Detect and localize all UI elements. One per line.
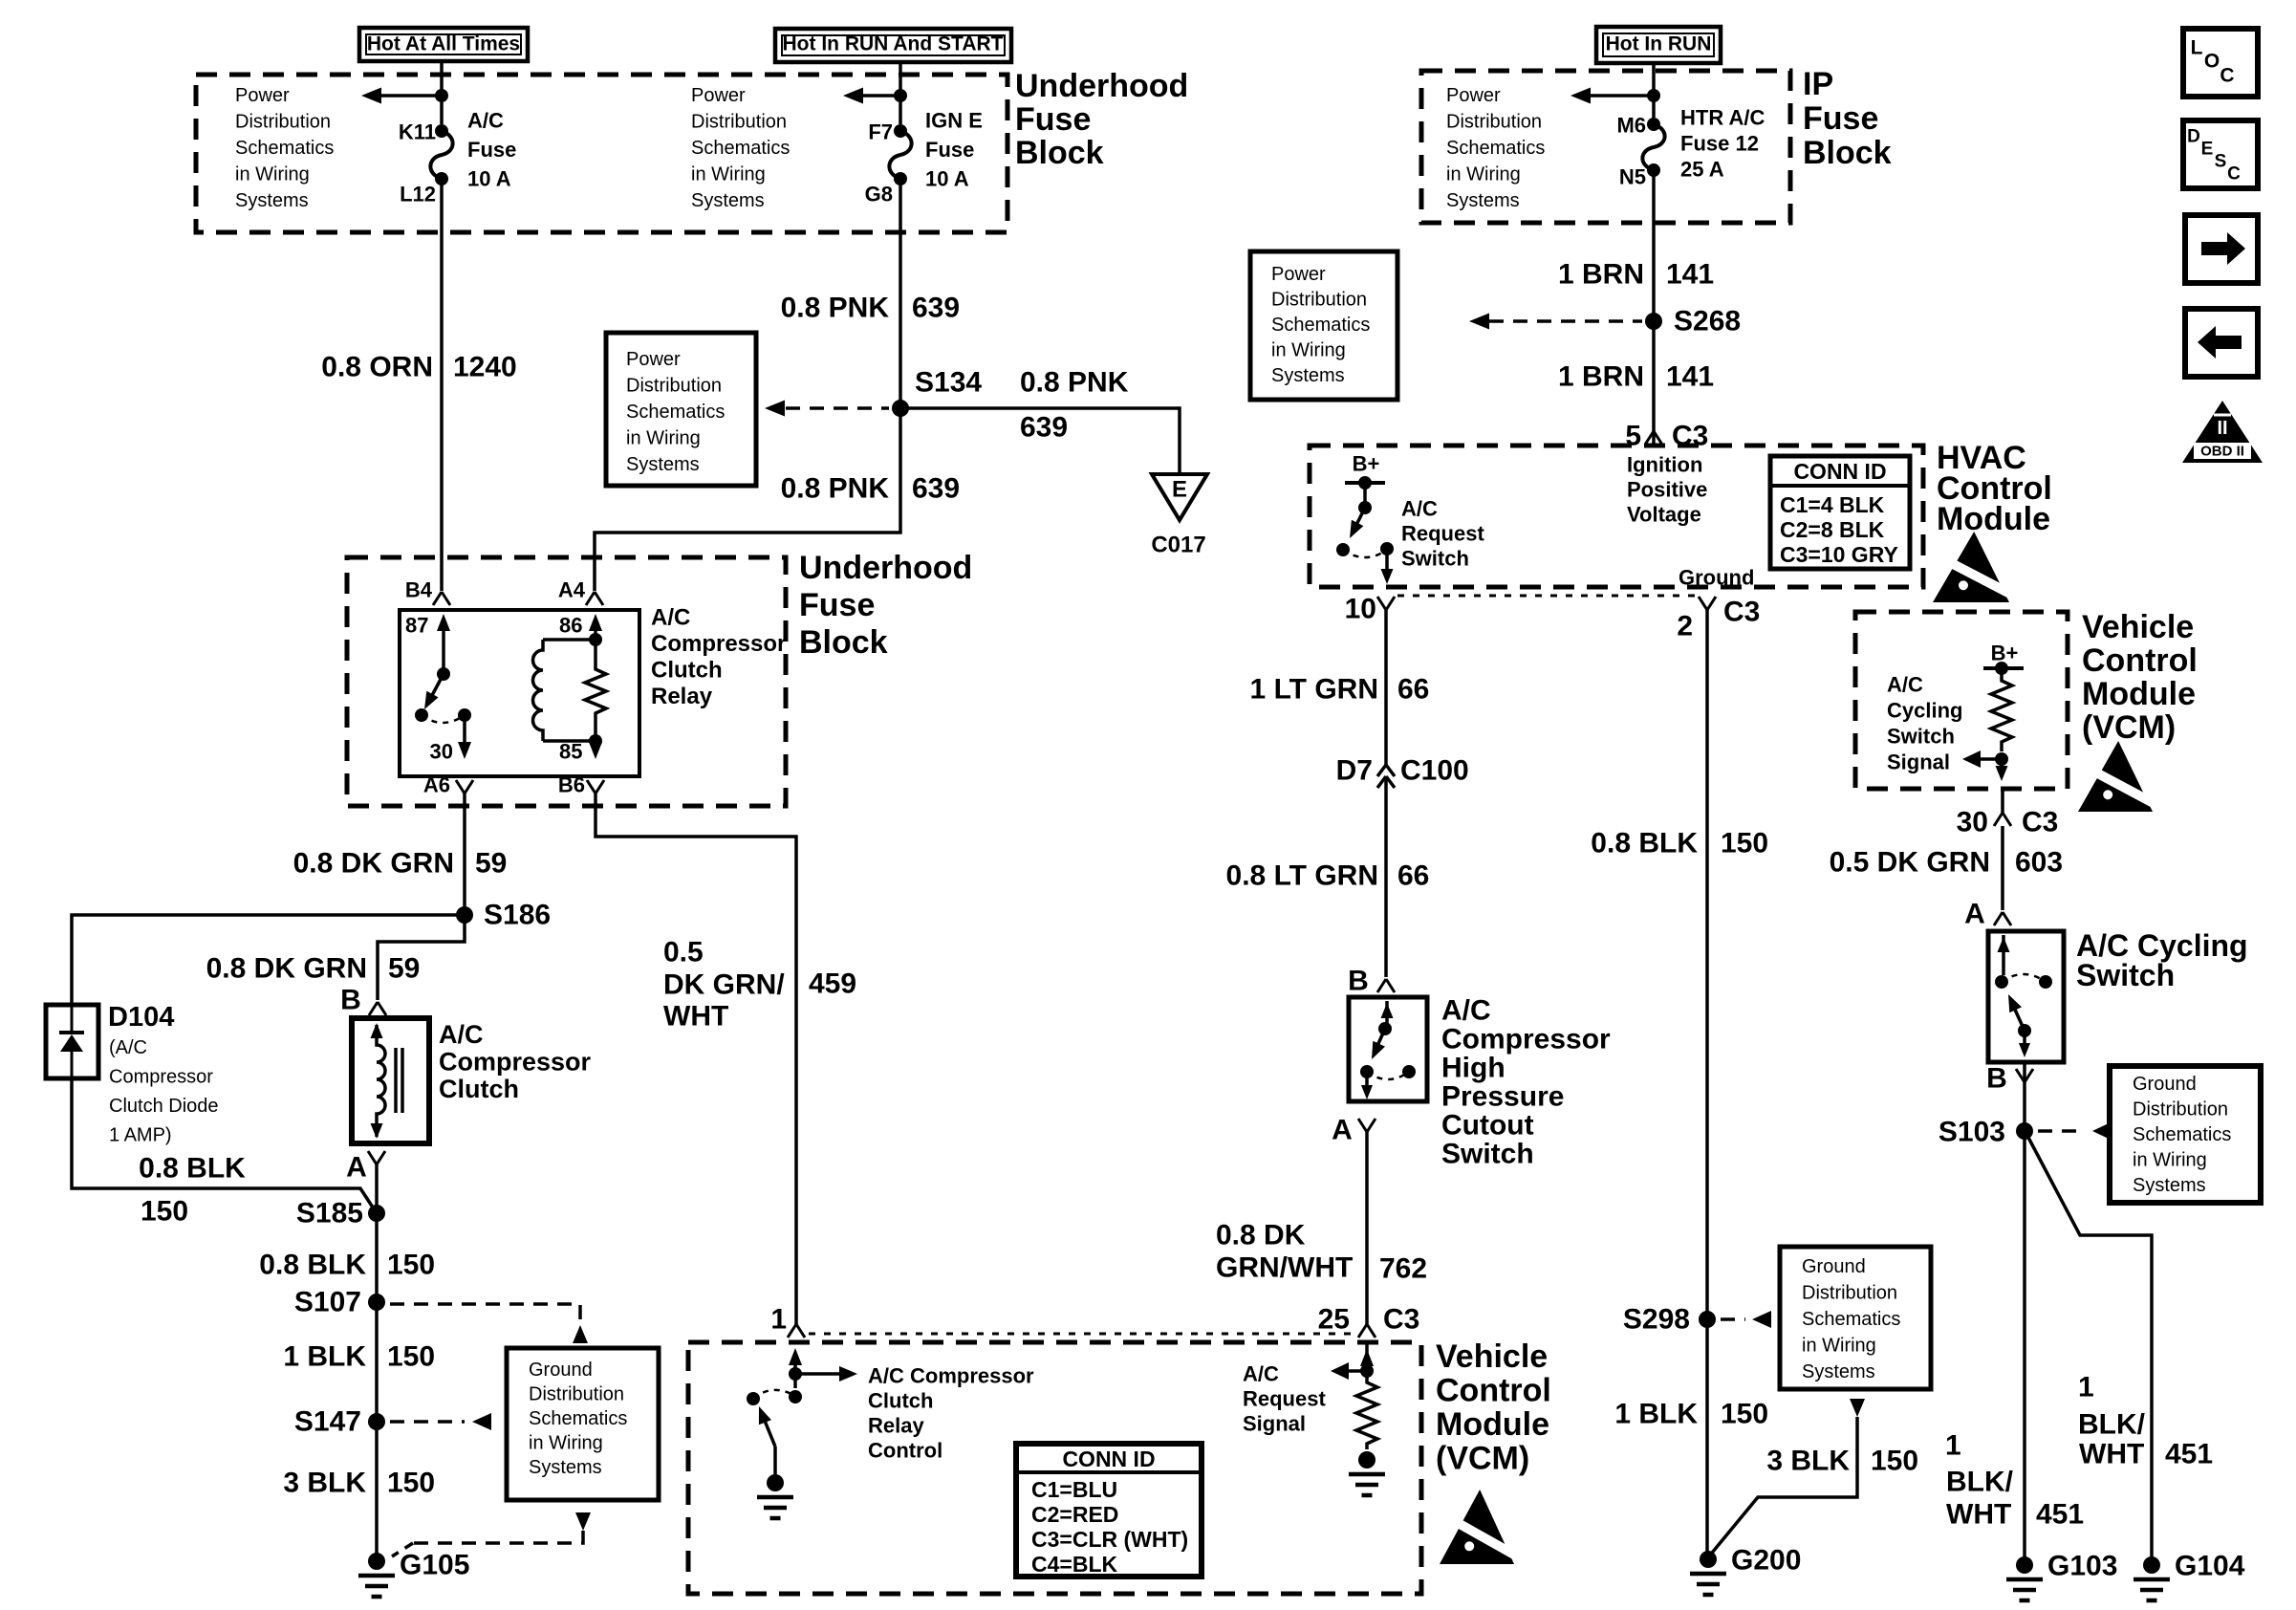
box: Power Distribution Schematics in Wiring Systems xyxy=(1250,251,1397,400)
svg-text:0.8 LT GRN: 0.8 LT GRN xyxy=(1226,860,1378,892)
svg-text:C1=BLU: C1=BLU xyxy=(1031,1477,1117,1502)
relay resistor xyxy=(589,633,602,646)
wire: 0.8 PNK 639 from G8 down to S134 and relay A4 xyxy=(595,179,900,591)
svg-text:Power: Power xyxy=(691,85,746,106)
svg-text:GRN/WHT: GRN/WHT xyxy=(1216,1252,1353,1284)
label box: Hot At All Times xyxy=(359,28,528,61)
svg-text:Schematics: Schematics xyxy=(1446,138,1545,159)
A/C cycling switch box xyxy=(1988,931,2064,1062)
vehicle control module (VCM) dashed box right xyxy=(1855,612,2068,789)
svg-text:1: 1 xyxy=(1945,1430,1961,1462)
svg-text:C2=RED: C2=RED xyxy=(1031,1502,1118,1527)
relay switch armature xyxy=(437,667,450,681)
svg-text:0.8 DK GRN: 0.8 DK GRN xyxy=(206,953,367,985)
fine connector line under HVAC xyxy=(1397,595,1696,598)
svg-text:Signal: Signal xyxy=(1243,1412,1306,1436)
svg-text:in Wiring: in Wiring xyxy=(1802,1336,1876,1357)
svg-text:C100: C100 xyxy=(1400,755,1469,787)
label box: Hot In RUN xyxy=(1596,27,1721,63)
svg-text:G105: G105 xyxy=(400,1550,469,1581)
svg-text:Module: Module xyxy=(2082,676,2196,712)
arrow: cycling switch signal tap xyxy=(1981,757,2002,761)
ESD symbol xyxy=(2078,741,2161,812)
ground symbol at resistor xyxy=(1358,1451,1375,1469)
svg-text:Vehicle: Vehicle xyxy=(1436,1338,1548,1375)
svg-text:A: A xyxy=(346,1152,367,1184)
wire: feed arrow to power distribution xyxy=(381,94,442,98)
svg-text:25: 25 xyxy=(1318,1304,1350,1336)
vehicle control module dashed box xyxy=(688,1342,1421,1594)
svg-text:(VCM): (VCM) xyxy=(2082,709,2176,746)
ground symbol inside VCM xyxy=(767,1474,784,1491)
svg-text:C2=8 BLK: C2=8 BLK xyxy=(1780,517,1885,542)
clutch coil symbol xyxy=(377,1025,385,1137)
box: Ground Distribution Schematics in Wiring Systems xyxy=(507,1348,659,1500)
svg-text:G200: G200 xyxy=(1731,1545,1801,1577)
svg-text:Power: Power xyxy=(1446,85,1501,106)
label box: Hot In RUN And START xyxy=(775,29,1011,62)
svg-text:87: 87 xyxy=(405,614,428,638)
pin 30 arrow xyxy=(463,715,466,749)
svg-text:S107: S107 xyxy=(294,1287,361,1318)
svg-text:0.8 ORN: 0.8 ORN xyxy=(321,352,433,383)
svg-text:G104: G104 xyxy=(2175,1551,2245,1582)
svg-text:Fuse 12: Fuse 12 xyxy=(1680,132,1759,156)
svg-text:C1=4 BLK: C1=4 BLK xyxy=(1780,492,1885,517)
svg-text:639: 639 xyxy=(912,293,960,324)
svg-text:Fuse: Fuse xyxy=(925,138,974,162)
icon: DESC xyxy=(2183,120,2258,188)
svg-text:BLK/: BLK/ xyxy=(2078,1409,2146,1441)
svg-text:150: 150 xyxy=(1871,1446,1918,1477)
A/C request signal input xyxy=(1365,1342,1369,1365)
diode D104 box xyxy=(46,1005,98,1078)
svg-text:S147: S147 xyxy=(294,1406,361,1438)
svg-text:Ground: Ground xyxy=(1679,566,1754,590)
wire: 3 BLK 150 from ground distribution to G200 xyxy=(1850,1399,1865,1417)
wire: 0.8 DK GRN/WHT 762 to VCM pin 25 xyxy=(1365,1132,1369,1324)
svg-text:Compressor: Compressor xyxy=(109,1067,213,1088)
svg-text:Systems: Systems xyxy=(1802,1361,1875,1382)
svg-text:Distribution: Distribution xyxy=(1446,112,1542,133)
ESD symbol xyxy=(1933,532,2019,602)
svg-text:B6: B6 xyxy=(558,773,585,797)
svg-text:Pressure: Pressure xyxy=(1441,1081,1564,1113)
svg-text:Hot In RUN: Hot In RUN xyxy=(1606,33,1712,55)
svg-text:0.8 PNK: 0.8 PNK xyxy=(781,473,890,505)
svg-text:O: O xyxy=(2204,51,2220,73)
svg-text:66: 66 xyxy=(1397,860,1429,892)
svg-text:Distribution: Distribution xyxy=(2133,1099,2228,1120)
svg-text:Schematics: Schematics xyxy=(529,1408,627,1429)
svg-text:150: 150 xyxy=(387,1468,435,1499)
wire: 0.8 LT GRN 66 to switch B xyxy=(1384,776,1388,977)
svg-text:0.8 DK: 0.8 DK xyxy=(1216,1220,1306,1251)
svg-text:E: E xyxy=(1172,477,1187,503)
dashed wire: S298 to ground distribution xyxy=(1721,1317,1745,1321)
svg-text:Request: Request xyxy=(1401,522,1484,546)
ground G103 xyxy=(2016,1556,2033,1574)
wire: 1 BLK/WHT 451 branch to G104 xyxy=(2026,1134,2152,1561)
svg-text:Fuse: Fuse xyxy=(467,138,516,162)
wire: 1 BLK 150 from S298 to G200 xyxy=(1705,1319,1709,1559)
svg-text:B: B xyxy=(1348,966,1369,997)
svg-text:Cycling: Cycling xyxy=(1887,699,1962,723)
dashed wire: S134 to power distribution box xyxy=(786,406,889,410)
svg-text:Systems: Systems xyxy=(1446,190,1520,211)
svg-text:86: 86 xyxy=(559,614,582,638)
svg-text:Ignition: Ignition xyxy=(1627,453,1702,477)
fuse: IGN E Fuse 10 A (F7-G8) xyxy=(894,124,907,138)
svg-text:Systems: Systems xyxy=(1271,365,1345,386)
svg-text:25 A: 25 A xyxy=(1680,158,1724,182)
svg-text:C3: C3 xyxy=(1383,1304,1419,1336)
svg-text:1240: 1240 xyxy=(453,352,517,383)
svg-text:A/C: A/C xyxy=(1441,995,1491,1027)
node: junction on fuse feed xyxy=(1647,89,1660,102)
svg-text:Relay: Relay xyxy=(651,684,713,709)
node S186 xyxy=(456,906,473,924)
node S185 xyxy=(368,1205,385,1222)
svg-text:1 BLK: 1 BLK xyxy=(283,1341,366,1373)
svg-text:Systems: Systems xyxy=(2133,1175,2206,1196)
svg-text:Block: Block xyxy=(1803,135,1892,171)
svg-text:Switch: Switch xyxy=(1401,547,1469,571)
svg-text:Cutout: Cutout xyxy=(1441,1110,1534,1142)
svg-text:in Wiring: in Wiring xyxy=(2133,1150,2207,1171)
ground G105 xyxy=(368,1553,385,1570)
icon: forward arrow xyxy=(2185,215,2258,283)
svg-text:3 BLK: 3 BLK xyxy=(1766,1446,1850,1477)
svg-text:WHT: WHT xyxy=(1946,1499,2011,1531)
dashed wire: ground distribution to G105 xyxy=(575,1512,591,1531)
svg-text:A6: A6 xyxy=(423,773,450,797)
svg-text:Underhood: Underhood xyxy=(1015,68,1188,104)
svg-text:Clutch: Clutch xyxy=(439,1075,519,1103)
relay A/C Compressor Clutch Relay box xyxy=(400,610,639,776)
svg-text:C4=BLK: C4=BLK xyxy=(1031,1552,1117,1577)
svg-text:M6: M6 xyxy=(1616,114,1646,138)
svg-text:A: A xyxy=(1964,899,1985,930)
svg-text:Clutch: Clutch xyxy=(651,658,723,684)
svg-text:A: A xyxy=(1332,1115,1353,1146)
svg-text:OBD II: OBD II xyxy=(2200,444,2244,460)
wire: cycling switch B to S103 xyxy=(2023,1062,2026,1131)
svg-text:Compressor: Compressor xyxy=(1441,1024,1611,1055)
svg-text:Fuse: Fuse xyxy=(1803,100,1878,137)
wire: 0.8 ORN 1240 from L12 to relay B4 xyxy=(440,179,444,591)
svg-text:Systems: Systems xyxy=(691,190,765,211)
svg-text:D: D xyxy=(2187,127,2200,147)
svg-text:0.5: 0.5 xyxy=(663,937,704,968)
svg-text:Request: Request xyxy=(1243,1387,1326,1411)
svg-text:Schematics: Schematics xyxy=(1271,315,1370,336)
svg-text:S103: S103 xyxy=(1939,1117,2005,1148)
svg-text:Fuse: Fuse xyxy=(799,587,875,623)
svg-text:30: 30 xyxy=(430,740,453,764)
dashed wire: S147 arrow xyxy=(390,1420,465,1424)
A/C Compressor Clutch box xyxy=(352,1018,429,1143)
svg-text:141: 141 xyxy=(1666,361,1714,393)
svg-text:10 A: 10 A xyxy=(467,167,511,191)
svg-text:Compressor: Compressor xyxy=(439,1048,592,1077)
svg-text:150: 150 xyxy=(387,1250,435,1281)
svg-text:S268: S268 xyxy=(1674,306,1741,337)
svg-text:1 BRN: 1 BRN xyxy=(1558,259,1644,291)
fuse: HTR A/C Fuse 12 25 A (M6-N5) xyxy=(1647,118,1660,131)
svg-text:Voltage: Voltage xyxy=(1627,503,1701,527)
wire: feed arrow xyxy=(1591,94,1654,98)
icon: LOC xyxy=(2183,29,2258,97)
svg-text:A/C: A/C xyxy=(439,1020,484,1049)
wire: 1 BLK 150 to S147 xyxy=(375,1302,379,1422)
svg-text:K11: K11 xyxy=(399,120,436,144)
svg-text:85: 85 xyxy=(559,740,582,764)
svg-text:G8: G8 xyxy=(865,183,893,207)
svg-text:639: 639 xyxy=(1020,412,1068,444)
svg-text:0.8 BLK: 0.8 BLK xyxy=(259,1250,366,1281)
wire: battery feed into fuse K11 xyxy=(440,61,444,124)
svg-text:S: S xyxy=(2215,152,2227,172)
svg-text:D104: D104 xyxy=(108,1002,174,1033)
svg-text:1 BRN: 1 BRN xyxy=(1558,361,1644,393)
node: junction on A/C fuse feed xyxy=(435,89,448,102)
driver: A/C compressor clutch relay control switch xyxy=(793,1357,797,1388)
IP fuse block dashed box xyxy=(1421,71,1790,223)
svg-text:N5: N5 xyxy=(1619,165,1646,189)
svg-text:A/C: A/C xyxy=(1887,673,1923,697)
svg-text:IGN E: IGN E xyxy=(925,109,983,133)
svg-text:59: 59 xyxy=(388,953,420,985)
svg-text:C017: C017 xyxy=(1151,533,1205,558)
svg-text:A/C Compressor: A/C Compressor xyxy=(868,1364,1034,1388)
svg-text:C: C xyxy=(2227,164,2241,185)
relay coil xyxy=(543,638,596,642)
svg-text:Relay: Relay xyxy=(868,1414,924,1438)
CONN ID table HVAC xyxy=(1770,456,1910,569)
svg-text:B: B xyxy=(340,985,361,1016)
svg-text:C3=10 GRY: C3=10 GRY xyxy=(1780,542,1898,567)
svg-text:Control: Control xyxy=(2082,642,2198,679)
svg-text:1 AMP): 1 AMP) xyxy=(109,1125,172,1146)
connector C100 pin D7 xyxy=(1377,765,1395,788)
svg-text:0.8 DK GRN: 0.8 DK GRN xyxy=(293,848,454,880)
wire: 0.5 DK GRN 603 to cycling switch xyxy=(2001,789,2004,813)
svg-text:Positive: Positive xyxy=(1627,478,1707,502)
svg-text:S298: S298 xyxy=(1623,1304,1690,1336)
svg-text:Module: Module xyxy=(1436,1406,1549,1443)
svg-text:0.8 PNK: 0.8 PNK xyxy=(781,293,890,324)
wire: 0.8 BLK 150 from D104 to S185 xyxy=(72,1078,377,1213)
svg-text:459: 459 xyxy=(809,968,856,1000)
svg-text:141: 141 xyxy=(1666,259,1714,291)
svg-text:0.8 BLK: 0.8 BLK xyxy=(1591,828,1698,859)
wire: clutch A to S185 xyxy=(375,1164,379,1213)
dashed wire: S107 to ground distribution xyxy=(390,1304,580,1322)
svg-text:(A/C: (A/C xyxy=(109,1037,147,1058)
svg-text:Ground: Ground xyxy=(529,1360,593,1381)
ESD symbol xyxy=(1440,1490,1523,1564)
svg-text:Distribution: Distribution xyxy=(691,112,787,133)
svg-text:in Wiring: in Wiring xyxy=(529,1433,603,1454)
dashed wire: S103 to ground distribution xyxy=(2038,1129,2086,1133)
wire: 0.5 DK GRN/WHT 459 from B6 to VCM xyxy=(596,794,796,1324)
svg-text:Control: Control xyxy=(868,1439,942,1463)
svg-text:0.8 PNK: 0.8 PNK xyxy=(1020,367,1129,399)
svg-text:Switch: Switch xyxy=(1887,725,1955,749)
svg-text:A/C: A/C xyxy=(1243,1362,1279,1386)
svg-text:WHT: WHT xyxy=(663,1001,728,1033)
svg-text:1 LT GRN: 1 LT GRN xyxy=(1250,674,1378,706)
svg-text:Control: Control xyxy=(1436,1373,1551,1409)
svg-text:E: E xyxy=(2201,140,2214,160)
svg-text:S185: S185 xyxy=(296,1198,363,1229)
svg-text:Distribution: Distribution xyxy=(235,112,331,133)
svg-text:Schematics: Schematics xyxy=(235,138,334,159)
svg-text:10 A: 10 A xyxy=(925,167,969,191)
svg-text:10: 10 xyxy=(1345,594,1376,625)
ground G200 xyxy=(1700,1551,1717,1568)
node S298 xyxy=(1699,1311,1716,1328)
node S107 xyxy=(368,1294,385,1311)
wire: 0.8 BLK 150 to S107 xyxy=(375,1213,379,1302)
icon: back arrow xyxy=(2185,309,2258,377)
svg-text:in Wiring: in Wiring xyxy=(626,428,701,449)
svg-text:A4: A4 xyxy=(558,578,586,602)
svg-text:Switch: Switch xyxy=(2076,958,2175,992)
svg-text:150: 150 xyxy=(141,1196,188,1228)
fuse: A/C Fuse 10 A (K11-L12) xyxy=(435,124,448,138)
svg-text:DK GRN/: DK GRN/ xyxy=(663,969,785,1001)
svg-text:Systems: Systems xyxy=(235,190,309,211)
underhood fuse block (relay) dashed box xyxy=(347,557,786,806)
svg-text:Distribution: Distribution xyxy=(1271,290,1367,311)
svg-text:Clutch Diode: Clutch Diode xyxy=(109,1096,219,1117)
box: Power Distribution Schematics in Wiring Systems xyxy=(606,333,756,486)
svg-text:A/C: A/C xyxy=(467,109,504,133)
svg-text:Signal: Signal xyxy=(1887,751,1950,774)
wire: 0.8 PNK 639 from S134 to C017 xyxy=(900,408,1180,474)
dashed wire: S268 to power distribution xyxy=(1489,319,1642,323)
svg-text:Block: Block xyxy=(799,624,888,661)
wire: 1 BRN 141 from N5 to S268 xyxy=(1652,170,1656,446)
svg-text:762: 762 xyxy=(1379,1253,1427,1285)
svg-text:HTR A/C: HTR A/C xyxy=(1680,106,1765,130)
svg-text:1: 1 xyxy=(2078,1372,2094,1403)
svg-text:Underhood: Underhood xyxy=(799,550,972,586)
wire: 0.8 DK GRN 59 from S186 to clutch B xyxy=(378,915,465,1000)
svg-text:Systems: Systems xyxy=(529,1457,602,1478)
icon: OBD II triangle xyxy=(2182,401,2263,463)
svg-text:Vehicle: Vehicle xyxy=(2082,609,2194,645)
CONN ID table xyxy=(1016,1444,1202,1577)
wire: 3 BLK 150 to G105 xyxy=(375,1422,379,1561)
svg-text:451: 451 xyxy=(2036,1499,2084,1531)
svg-text:Schematics: Schematics xyxy=(691,138,790,159)
svg-text:C3=CLR (WHT): C3=CLR (WHT) xyxy=(1031,1527,1188,1552)
svg-text:B: B xyxy=(1986,1063,2007,1095)
svg-text:S134: S134 xyxy=(915,367,982,399)
svg-text:1 BLK: 1 BLK xyxy=(1614,1399,1698,1430)
HVAC control module dashed box xyxy=(1310,446,1923,587)
node: junction on IGN E fuse feed xyxy=(894,89,907,102)
svg-text:Ground: Ground xyxy=(2133,1074,2197,1095)
svg-text:Fuse: Fuse xyxy=(1015,101,1091,138)
pin 85 arrow xyxy=(594,741,597,749)
svg-text:B+: B+ xyxy=(1353,452,1380,476)
svg-text:Schematics: Schematics xyxy=(2133,1124,2231,1145)
A/C compressor high pressure cutout switch box xyxy=(1349,997,1427,1101)
wire: 0.8 BLK 150 from pin 2 to S298 xyxy=(1705,610,1709,1319)
underhood fuse block (top) dashed box xyxy=(196,75,1007,232)
svg-text:B+: B+ xyxy=(1991,642,2019,665)
svg-text:in Wiring: in Wiring xyxy=(691,164,766,185)
svg-text:in Wiring: in Wiring xyxy=(235,164,310,185)
svg-text:BLK/: BLK/ xyxy=(1946,1467,2014,1498)
svg-text:Power: Power xyxy=(235,85,290,106)
svg-text:A/C: A/C xyxy=(651,605,690,631)
wire: ignition feed into fuse F7 xyxy=(899,61,902,124)
svg-text:2: 2 xyxy=(1677,611,1693,642)
svg-text:C3: C3 xyxy=(1723,597,1760,628)
wire: S186 branch to diode D104 xyxy=(72,915,465,1005)
svg-text:L: L xyxy=(2191,37,2203,59)
svg-text:in Wiring: in Wiring xyxy=(1271,340,1346,361)
box: Ground Distribution Schematics in Wiring Systems xyxy=(2110,1066,2261,1203)
svg-text:0.8 BLK: 0.8 BLK xyxy=(139,1153,246,1185)
svg-text:F7: F7 xyxy=(868,120,893,144)
svg-text:Schematics: Schematics xyxy=(626,402,725,423)
svg-text:Compressor: Compressor xyxy=(651,631,786,657)
svg-text:639: 639 xyxy=(912,473,960,505)
svg-text:59: 59 xyxy=(475,848,507,880)
svg-text:C: C xyxy=(2220,65,2234,87)
node S103 xyxy=(2016,1122,2033,1140)
wire into fuse M6 xyxy=(1652,61,1656,118)
svg-text:Power: Power xyxy=(1271,264,1326,285)
diode symbol xyxy=(71,1005,74,1033)
svg-text:Clutch: Clutch xyxy=(868,1389,933,1413)
svg-text:Block: Block xyxy=(1015,135,1104,171)
svg-text:Switch: Switch xyxy=(1441,1139,1534,1170)
svg-text:G103: G103 xyxy=(2047,1551,2117,1582)
svg-text:Distribution: Distribution xyxy=(529,1384,624,1405)
A/C request switch armature xyxy=(1355,508,1365,527)
svg-text:A/C: A/C xyxy=(1401,497,1438,521)
svg-text:451: 451 xyxy=(2165,1439,2213,1470)
svg-text:Power: Power xyxy=(626,349,681,370)
svg-text:IP: IP xyxy=(1803,66,1833,102)
wire: 1 LT GRN 66 from pin 10 xyxy=(1384,610,1388,765)
wire: feed arrow to power distribution xyxy=(863,94,900,98)
svg-text:150: 150 xyxy=(1721,828,1768,859)
box: Ground Distribution Schematics in Wiring Systems xyxy=(1780,1247,1931,1389)
svg-text:S186: S186 xyxy=(484,900,551,931)
svg-text:0.5 DK GRN: 0.5 DK GRN xyxy=(1830,847,1990,879)
svg-text:(VCM): (VCM) xyxy=(1436,1441,1529,1477)
node S268 xyxy=(1645,313,1662,330)
svg-text:D7: D7 xyxy=(1336,755,1373,787)
svg-text:Distribution: Distribution xyxy=(626,376,722,397)
svg-text:30: 30 xyxy=(1957,807,1988,838)
svg-text:High: High xyxy=(1441,1053,1505,1084)
svg-text:WHT: WHT xyxy=(2079,1439,2144,1470)
svg-text:II: II xyxy=(2217,418,2227,439)
svg-text:Hot At All Times: Hot At All Times xyxy=(367,33,520,55)
svg-text:1: 1 xyxy=(770,1304,787,1336)
svg-text:CONN ID: CONN ID xyxy=(1793,459,1886,484)
svg-text:66: 66 xyxy=(1397,674,1429,706)
